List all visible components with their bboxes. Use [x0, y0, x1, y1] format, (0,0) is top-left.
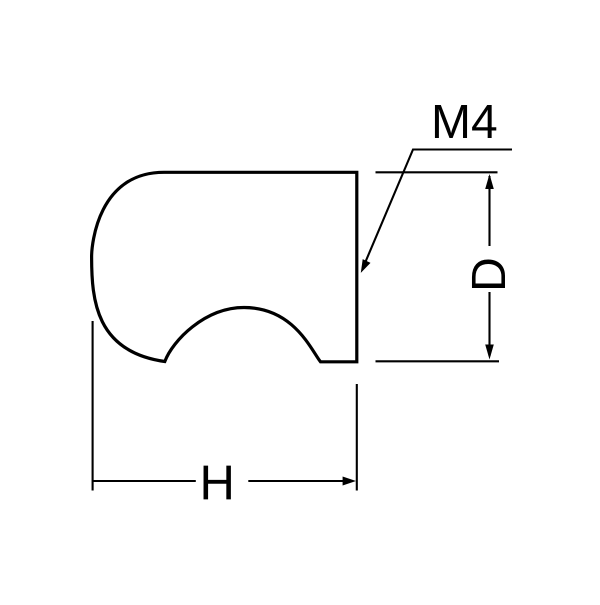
svg-text:M4: M4: [431, 96, 498, 149]
arrowhead D bottom: [485, 345, 494, 360]
dimension H line left segment: [93, 480, 196, 482]
dimension D top extension line: [376, 171, 498, 173]
dimension D vertical line lower segment: [488, 292, 490, 356]
dimension D vertical line upper segment: [488, 176, 490, 246]
arrowhead D top: [485, 174, 494, 189]
arrowhead leader: [361, 259, 371, 273]
svg-text:H: H: [199, 456, 234, 510]
arrowhead H right: [343, 477, 356, 486]
dimension H line right segment: [248, 480, 344, 482]
dimension H right extension line: [356, 384, 358, 491]
svg-text:D: D: [463, 257, 516, 292]
leader line for M4: [364, 150, 513, 267]
knob profile outline: [92, 172, 357, 361]
dimension D bottom extension line: [376, 360, 500, 362]
dimension H left extension line: [92, 321, 94, 491]
